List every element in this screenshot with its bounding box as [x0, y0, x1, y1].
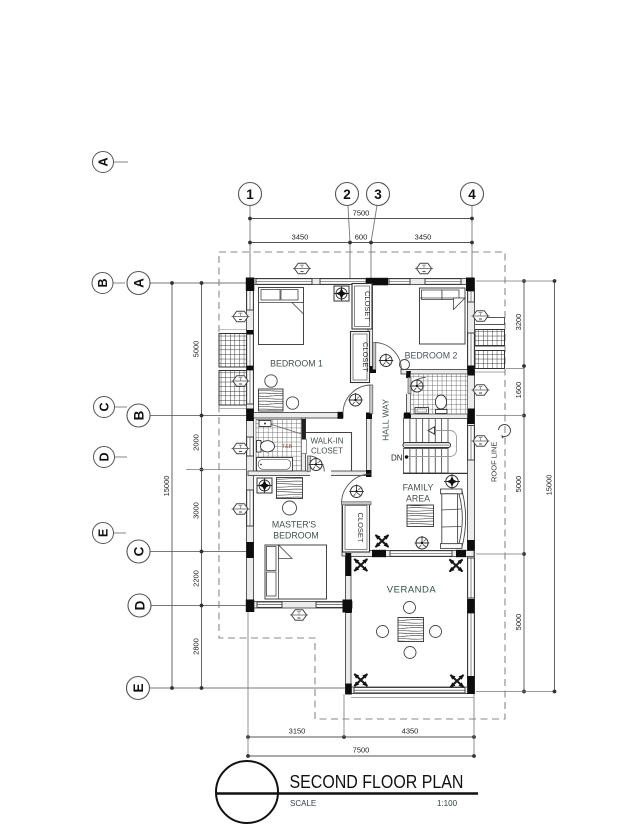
wall left (grid 1): [247, 279, 254, 609]
veranda outer step line: [351, 697, 474, 699]
svg-text:CLOSET: CLOSET: [363, 291, 372, 321]
svg-text:SCALE: SCALE: [290, 799, 316, 808]
grid bubble B row line: [127, 404, 248, 427]
window tag hex left 4: [232, 504, 250, 515]
veranda chair top: [404, 602, 416, 614]
stairs direction path: [407, 427, 457, 457]
svg-text:15000: 15000: [162, 476, 171, 497]
master side table: [283, 501, 297, 515]
svg-text:3200: 3200: [514, 314, 523, 331]
window tag hex right 2: [472, 385, 490, 396]
svg-text:3450: 3450: [292, 233, 309, 242]
window tag hex left 2: [232, 376, 250, 387]
svg-text:CLOSET: CLOSET: [311, 447, 343, 456]
grid bubble E row line: [127, 677, 353, 700]
svg-text:T&B: T&B: [282, 444, 293, 450]
outer section bubble B: [92, 273, 125, 294]
wall top (grid A): [248, 279, 474, 285]
window tag hex top 1: [293, 263, 311, 274]
column B1: [246, 409, 254, 422]
column G3 end cap: [367, 366, 377, 373]
svg-text:HALL WAY: HALL WAY: [381, 399, 391, 441]
column C1: [246, 542, 254, 558]
outer section bubble E: [93, 523, 127, 544]
right balcony tiles upper: [475, 330, 505, 347]
column B4: [467, 409, 475, 425]
veranda table: [398, 618, 424, 642]
column corner D1: [246, 600, 255, 613]
window veranda north: [390, 551, 452, 557]
svg-text:3450: 3450: [415, 233, 432, 242]
bath2 tiled floor: [411, 374, 468, 414]
grid bubble 3: [367, 183, 390, 283]
bath1 east wall: [301, 418, 307, 472]
svg-text:D: D: [98, 452, 112, 461]
window tag hex top 2: [415, 263, 433, 274]
svg-text:5000: 5000: [514, 476, 523, 493]
fan symbol family south: [415, 536, 430, 549]
column veranda NW: [345, 553, 351, 576]
bath1 toilet: [257, 441, 275, 453]
svg-text:C: C: [98, 402, 112, 411]
column bath2 SW: [404, 413, 411, 420]
wall right (grid 4): [468, 279, 475, 694]
svg-text:AREA: AREA: [406, 494, 430, 504]
window left bedroom1: [247, 289, 254, 310]
svg-text:DN: DN: [391, 454, 403, 463]
label family: [403, 483, 434, 504]
outer section bubble C: [94, 397, 128, 418]
bath1 tub: [257, 458, 293, 472]
label veranda: [387, 585, 437, 596]
svg-text:E: E: [97, 529, 111, 537]
column door jamb wallB: [338, 412, 344, 419]
bedroom2 south wall: [401, 370, 474, 375]
fan symbol master door: [349, 485, 364, 498]
bath2 west wall: [406, 374, 412, 416]
bedroom2 side table: [400, 360, 410, 370]
bedroom1 side table a: [265, 375, 277, 387]
closet box top: [352, 284, 372, 330]
bath1 walk-in south wall: [248, 470, 371, 477]
window master south b: [316, 602, 343, 607]
xmark veranda TR: [449, 559, 463, 572]
window right veranda a: [468, 558, 475, 598]
svg-text:7500: 7500: [353, 746, 370, 755]
ceiling fan bedroom1: [334, 286, 349, 301]
family sofa: [441, 489, 466, 548]
svg-text:2000: 2000: [192, 434, 201, 451]
column walkin SE: [366, 470, 372, 477]
bed bedroom2: [420, 288, 466, 344]
scale labels: [290, 799, 458, 808]
closet wall grid3 upper: [368, 284, 373, 370]
column corner E4: [467, 676, 475, 694]
svg-text:VERANDA: VERANDA: [387, 585, 437, 596]
xmark family: [375, 535, 389, 548]
master south wall (grid D): [247, 602, 353, 609]
window master south a: [257, 602, 282, 607]
bath2 sink: [415, 408, 429, 414]
left balcony tiles upper: [219, 329, 248, 367]
grid bubble 1: [239, 183, 262, 281]
svg-text:4350: 4350: [402, 727, 419, 736]
label walkin: [310, 437, 343, 456]
door bedroom1: [343, 385, 373, 414]
svg-text:3000: 3000: [192, 502, 201, 519]
column stub left wall b: [247, 366, 254, 370]
svg-text:BEDROOM 2: BEDROOM 2: [405, 351, 458, 361]
svg-text:1: 1: [246, 187, 254, 202]
bath1 sink: [259, 421, 271, 427]
window tag hex master south: [290, 610, 308, 621]
column master SE: [343, 600, 353, 613]
svg-text:D: D: [133, 600, 148, 610]
bed master: [265, 545, 327, 599]
svg-text:1:100: 1:100: [437, 799, 458, 808]
left balcony tiles lower: [219, 371, 248, 409]
window top bedroom1 a: [256, 279, 312, 285]
column stub left wall a: [247, 330, 254, 335]
window right veranda b: [468, 613, 475, 677]
fan symbol walkin: [309, 458, 324, 471]
ceiling fan family: [444, 474, 460, 490]
outer section bubble A: [93, 152, 129, 173]
svg-text:5000: 5000: [514, 614, 523, 631]
closet box mid: [351, 332, 371, 383]
svg-text:BEDROOM: BEDROOM: [273, 531, 318, 541]
column C4: [467, 540, 475, 551]
veranda west wall: [346, 557, 352, 694]
window left master: [247, 490, 254, 526]
svg-text:2200: 2200: [192, 570, 201, 587]
column bedroom2 south: [467, 366, 475, 376]
svg-text:E: E: [131, 683, 146, 692]
closet wall grid3 lower: [367, 415, 372, 475]
svg-text:2: 2: [343, 187, 351, 202]
door bath2: [408, 378, 426, 394]
svg-text:3: 3: [374, 187, 382, 202]
svg-text:2800: 2800: [192, 638, 201, 655]
window top hall: [389, 279, 410, 285]
fan symbol bedroom1 door: [348, 393, 363, 406]
grid bubble 4: [461, 183, 484, 281]
window tag hex right 3: [472, 436, 490, 447]
window left bath1: [247, 437, 254, 456]
svg-text:FAMILY: FAMILY: [403, 483, 434, 493]
window top bedroom1 b: [320, 279, 366, 285]
label master: [272, 520, 319, 541]
veranda chair bottom: [404, 647, 416, 659]
svg-text:B: B: [132, 410, 147, 420]
title text SECOND FLOOR PLAN: [290, 771, 464, 793]
column bath1 top: [301, 419, 306, 439]
door walkin: [307, 456, 324, 472]
svg-text:CLOSET: CLOSET: [361, 342, 370, 372]
right balcony tiles lower: [475, 351, 505, 373]
fan symbol bedroom2 door: [379, 354, 394, 367]
svg-text:CLOSET: CLOSET: [356, 512, 365, 542]
column G3 lower cap: [366, 413, 372, 420]
stairs upper treads: [404, 419, 449, 445]
window tag hex right 1: [472, 311, 490, 322]
window left balcony door a: [247, 334, 254, 366]
bath1 tiled floor: [256, 420, 302, 472]
top dimension line 3450/600/3450: [248, 233, 474, 245]
svg-text:3150: 3150: [289, 727, 306, 736]
svg-text:BEDROOM 1: BEDROOM 1: [270, 359, 323, 369]
svg-text:SECOND FLOOR PLAN: SECOND FLOOR PLAN: [290, 771, 464, 793]
svg-text:4: 4: [468, 187, 476, 202]
bed bedroom1: [259, 288, 304, 345]
window veranda south rail: [354, 688, 465, 693]
column veranda D: [346, 600, 352, 614]
bath2 south wall: [404, 414, 474, 419]
svg-text:MASTER'S: MASTER'S: [272, 520, 316, 530]
column wallC east: [456, 550, 466, 557]
window right bath2: [468, 426, 475, 461]
master dresser: [277, 478, 303, 499]
master east wall: [342, 503, 347, 556]
wall C family/veranda: [346, 551, 474, 557]
svg-text:A: A: [97, 157, 111, 166]
xmark veranda BR: [450, 675, 464, 688]
column top closets: [366, 278, 388, 286]
label hallway: [381, 399, 391, 441]
roof line dashed outline: [219, 252, 505, 719]
svg-text:7500: 7500: [353, 209, 370, 218]
stairs DN label: [391, 454, 408, 463]
right dimension line 15000: [545, 279, 557, 693]
window tag hex left 3: [232, 443, 250, 454]
grid bubble A row line: [127, 272, 248, 295]
veranda chair right: [430, 626, 442, 638]
column corner A4: [466, 278, 475, 292]
fan symbol bath2: [410, 379, 425, 392]
grid bubble 2: [336, 183, 359, 281]
bedroom1 dresser: [259, 389, 284, 411]
column corner A1: [246, 278, 255, 292]
window top bedroom2: [425, 279, 461, 285]
left dimension segments 5000/2000/3000/2200/2800: [186, 281, 248, 690]
walkin inner wall: [306, 433, 352, 472]
xmark veranda BL: [354, 674, 368, 687]
column D4: [467, 599, 475, 613]
svg-text:5000: 5000: [192, 341, 201, 358]
window right balcony: [468, 333, 475, 368]
window tag hex left 1: [232, 311, 250, 322]
svg-text:1600: 1600: [514, 382, 523, 399]
svg-text:C: C: [132, 546, 147, 556]
svg-text:15000: 15000: [545, 475, 554, 496]
closet box master: [343, 503, 370, 552]
left dimension line 15000: [162, 281, 174, 690]
column veranda SW: [345, 684, 352, 695]
label bedroom1: [270, 359, 323, 369]
bottom dimension line 7500: [246, 746, 476, 758]
title block circle: [216, 761, 278, 823]
column wallC west: [372, 550, 386, 557]
right dimension segments 3200/1600/5000/5000: [476, 279, 555, 693]
wall B left segment: [248, 413, 343, 419]
window left balcony door b: [247, 370, 254, 404]
veranda chair left: [377, 626, 389, 638]
svg-text:ROOF LINE: ROOF LINE: [490, 442, 499, 482]
grid bubble C row line: [127, 540, 248, 563]
ceiling fan master: [257, 478, 272, 493]
grid bubble D row line: [128, 594, 248, 617]
stairs lower treads: [403, 449, 468, 474]
right balcony top rail: [475, 318, 505, 325]
bottom dimension line 3150/4350: [246, 612, 476, 756]
roof line label: [490, 425, 511, 482]
svg-text:600: 600: [355, 233, 368, 242]
title underline: [216, 792, 478, 795]
svg-text:A: A: [132, 278, 147, 288]
window right bedroom2: [468, 291, 475, 302]
top dimension line 7500: [248, 209, 474, 221]
svg-text:WALK-IN: WALK-IN: [310, 437, 343, 446]
family coffee table: [407, 505, 434, 527]
xmark veranda TL: [354, 559, 368, 572]
bedroom1 side table b: [286, 397, 298, 409]
door master: [342, 474, 372, 505]
door bedroom2: [373, 343, 402, 370]
outer section bubble D: [94, 447, 128, 468]
column bath2 west top: [406, 371, 411, 378]
label bedroom2: [405, 351, 458, 361]
bath2 toilet: [435, 395, 447, 414]
veranda south wall (grid E): [346, 687, 475, 694]
svg-text:B: B: [96, 278, 110, 287]
bath1 label: [282, 444, 293, 450]
stairs handrail: [403, 443, 451, 448]
